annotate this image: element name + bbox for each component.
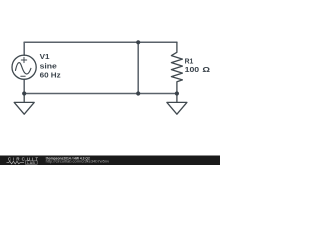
V1 plus sign bbox=[21, 57, 26, 62]
svg-text:http://circuitlab.com/c/3ke34b: http://circuitlab.com/c/3ke34b7w5nv bbox=[46, 160, 110, 164]
svg-text:LAB: LAB bbox=[27, 161, 35, 165]
logo LAB box bbox=[25, 161, 37, 164]
node dot middle top bbox=[136, 40, 140, 44]
node dot middle bottom bbox=[136, 91, 140, 95]
svg-text:sine: sine bbox=[40, 62, 58, 70]
ground right bbox=[167, 94, 187, 115]
svg-text:R1: R1 bbox=[185, 58, 194, 65]
ground left bbox=[14, 94, 34, 115]
node dot V1 bottom bbox=[22, 91, 26, 95]
svg-text:Ω: Ω bbox=[202, 65, 210, 74]
wire V1 bottom lead bbox=[23, 79, 25, 93]
svg-text:V1: V1 bbox=[40, 52, 51, 60]
wire top rail bbox=[24, 41, 177, 43]
svg-text:60 Hz: 60 Hz bbox=[40, 71, 61, 79]
V1 minus sign bbox=[21, 75, 25, 77]
resistor R1 zigzag with leads bbox=[171, 42, 182, 93]
V1 sine waveform bbox=[16, 63, 31, 74]
logo zigzag bbox=[7, 161, 25, 164]
wire V1 top lead bbox=[23, 42, 25, 55]
node dot R1 bottom bbox=[175, 91, 179, 95]
watermark bar bbox=[0, 156, 220, 166]
svg-text:100: 100 bbox=[185, 66, 200, 74]
voltage source V1 circle bbox=[12, 55, 36, 79]
wire bottom rail bbox=[24, 93, 177, 95]
wire middle vertical bbox=[137, 42, 139, 93]
